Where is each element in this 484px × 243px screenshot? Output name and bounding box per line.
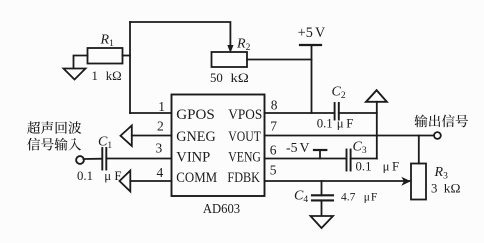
label input line2: signal input (xin hao shu ru) (27, 138, 81, 151)
capacitor C3 (347, 150, 351, 171)
svg-text:0.1: 0.1 (356, 160, 372, 174)
wire C2 to ground junction (339, 112, 377, 114)
resistor R1 (88, 48, 123, 64)
svg-text:GPOS: GPOS (176, 106, 215, 123)
svg-text:50: 50 (210, 71, 223, 85)
input terminal (76, 156, 84, 164)
svg-text:VINP: VINP (176, 148, 210, 165)
svg-text:μ F: μ F (364, 192, 378, 204)
wire pin 8 VPOS (265, 112, 335, 114)
wire pin 7 VOUT to output terminal (265, 135, 434, 137)
ground (COMM pin 4) (120, 171, 131, 192)
IC U1 AD603 (172, 95, 265, 197)
wire top to R2 wiper (130, 22, 230, 46)
svg-text:V: V (300, 140, 310, 155)
svg-text:VPOS: VPOS (228, 106, 262, 123)
svg-text:8: 8 (271, 98, 278, 113)
wire node to pin 1 (vertical) (129, 22, 131, 113)
wire +5V rail to pin 8 (311, 45, 313, 113)
potentiometer R3 (411, 164, 426, 200)
svg-text:0.1: 0.1 (317, 117, 333, 131)
wire C4 top (321, 181, 323, 195)
wire VOUT to R3 top (418, 136, 420, 164)
label input line1: ultrasonic echo (chao sheng hui bo) (27, 121, 81, 134)
svg-text:4.7: 4.7 (341, 192, 356, 204)
svg-text:-5: -5 (286, 140, 298, 155)
wire pin 6 VENG (265, 158, 347, 160)
ground (C4) (311, 216, 334, 228)
svg-text:2: 2 (157, 119, 164, 134)
wire pin 1 (130, 112, 172, 114)
wire R2 to +5V rail (247, 59, 312, 61)
svg-text:VOUT: VOUT (228, 128, 261, 145)
svg-text:VENG: VENG (228, 148, 261, 165)
wire ground junction vertical (376, 102, 378, 159)
svg-text:0.1: 0.1 (77, 169, 93, 183)
svg-text:3: 3 (431, 182, 437, 196)
svg-text:6: 6 (270, 143, 277, 158)
svg-text:+5: +5 (298, 25, 313, 41)
capacitor C2 (335, 103, 339, 120)
svg-text:kΩ: kΩ (106, 69, 122, 83)
wire -5V to pin 6 (319, 150, 321, 159)
wire R1 left to ground (74, 56, 88, 69)
svg-text:7: 7 (270, 119, 277, 134)
wire C1 to pin 3 VINP (106, 158, 171, 160)
label output signal (shu chu xin hao) (414, 115, 468, 128)
wire pin 2 (132, 135, 172, 137)
wire R1 right to node (123, 55, 131, 57)
R2 wiper arrow (227, 45, 233, 53)
supply -5 V bar (314, 149, 326, 151)
capacitor C4 (312, 195, 333, 200)
R3 wiper arrow (401, 177, 411, 186)
wire C4 bottom (321, 200, 323, 215)
output terminal (434, 132, 441, 139)
svg-text:μ F: μ F (104, 169, 121, 183)
svg-text:GNEG: GNEG (176, 128, 215, 145)
ground (GNEG pin 2) (121, 126, 132, 147)
svg-text:1: 1 (158, 99, 165, 114)
capacitor C1 (102, 148, 106, 170)
svg-text:FDBK: FDBK (227, 169, 260, 186)
wire pin 5 FDBK to R3 wiper (265, 180, 410, 182)
svg-text:5: 5 (270, 163, 277, 178)
svg-text:kΩ: kΩ (444, 182, 461, 196)
svg-text:1: 1 (92, 69, 98, 83)
wire pin 4 (130, 180, 171, 182)
svg-text:4: 4 (156, 165, 163, 180)
svg-text:μ F: μ F (383, 160, 400, 174)
svg-text:kΩ: kΩ (231, 71, 249, 85)
ground (R1) (64, 69, 86, 80)
svg-text:μ F: μ F (337, 117, 354, 131)
svg-text:3: 3 (155, 141, 162, 156)
+5 V supply bar (300, 44, 321, 46)
wire input to C1 (84, 158, 103, 160)
ground (up triangle) (366, 90, 387, 102)
svg-text:AD603: AD603 (203, 202, 240, 217)
potentiometer R2 (212, 52, 248, 67)
wire C3 to ground junction (351, 158, 377, 160)
svg-text:V: V (315, 25, 326, 41)
svg-text:COMM: COMM (176, 169, 217, 186)
